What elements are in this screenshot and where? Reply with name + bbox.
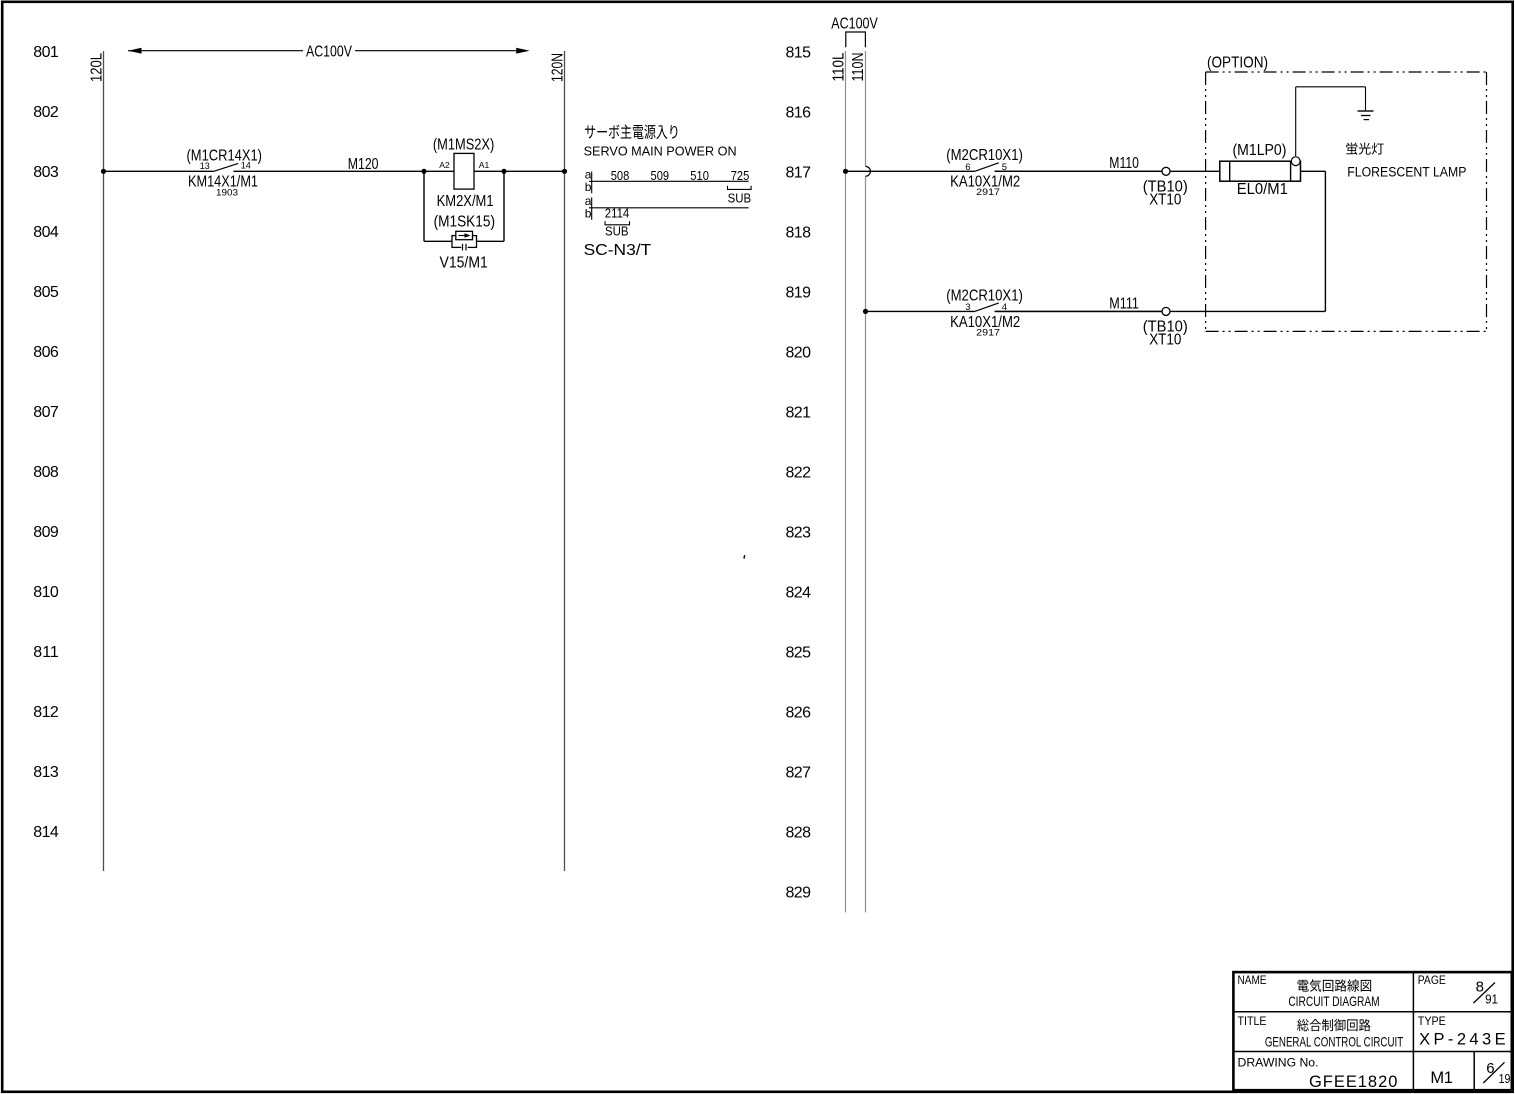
svg-text:2114: 2114 bbox=[605, 206, 630, 221]
svg-text:XT10: XT10 bbox=[1149, 191, 1182, 208]
svg-text:(M1LP0): (M1LP0) bbox=[1233, 142, 1287, 159]
svg-text:822: 822 bbox=[786, 465, 812, 482]
svg-text:SERVO MAIN POWER ON: SERVO MAIN POWER ON bbox=[584, 144, 737, 159]
svg-text:806: 806 bbox=[33, 344, 59, 361]
svg-text:1903: 1903 bbox=[216, 188, 238, 199]
svg-text:816: 816 bbox=[786, 105, 812, 122]
svg-text:829: 829 bbox=[786, 885, 812, 902]
svg-text:120L: 120L bbox=[88, 53, 105, 82]
svg-text:821: 821 bbox=[786, 405, 812, 422]
svg-text:DRAWING No.: DRAWING No. bbox=[1238, 1057, 1319, 1069]
svg-text:A2: A2 bbox=[439, 160, 450, 170]
svg-text:510: 510 bbox=[690, 168, 709, 183]
svg-text:SUB: SUB bbox=[605, 223, 629, 238]
svg-text:PAGE: PAGE bbox=[1418, 975, 1446, 987]
svg-text:8: 8 bbox=[1476, 979, 1484, 996]
svg-text:(OPTION): (OPTION) bbox=[1207, 55, 1268, 72]
svg-text:M111: M111 bbox=[1109, 295, 1139, 312]
svg-text:14: 14 bbox=[241, 161, 251, 172]
svg-text:M120: M120 bbox=[348, 156, 379, 173]
svg-text:819: 819 bbox=[786, 285, 812, 302]
svg-text:828: 828 bbox=[786, 825, 812, 842]
svg-text:5: 5 bbox=[1002, 162, 1007, 173]
svg-text:807: 807 bbox=[33, 404, 59, 421]
svg-text:TITLE: TITLE bbox=[1238, 1016, 1267, 1028]
svg-text:808: 808 bbox=[33, 464, 59, 481]
svg-text:508: 508 bbox=[611, 168, 630, 183]
svg-text:(M1SK15): (M1SK15) bbox=[434, 213, 495, 230]
svg-text:13: 13 bbox=[200, 161, 210, 172]
svg-text:AC100V: AC100V bbox=[831, 16, 878, 33]
svg-text:3: 3 bbox=[965, 302, 970, 313]
svg-text:XT10: XT10 bbox=[1149, 331, 1182, 348]
svg-text:19: 19 bbox=[1499, 1072, 1511, 1086]
svg-text:814: 814 bbox=[33, 824, 59, 841]
svg-text:SC-N3/T: SC-N3/T bbox=[584, 242, 652, 259]
svg-text:725: 725 bbox=[731, 168, 750, 183]
svg-text:M110: M110 bbox=[1109, 155, 1139, 172]
svg-text:815: 815 bbox=[786, 45, 812, 62]
svg-text:FLORESCENT LAMP: FLORESCENT LAMP bbox=[1347, 164, 1466, 179]
svg-text:110N: 110N bbox=[850, 53, 867, 82]
svg-text:CIRCUIT DIAGRAM: CIRCUIT DIAGRAM bbox=[1288, 993, 1379, 1009]
svg-text:810: 810 bbox=[33, 584, 59, 601]
svg-text:(M2CR10X1): (M2CR10X1) bbox=[946, 287, 1023, 304]
svg-text:(M2CR10X1): (M2CR10X1) bbox=[946, 147, 1023, 164]
svg-text:813: 813 bbox=[33, 764, 59, 781]
svg-text:SUB: SUB bbox=[728, 190, 752, 205]
svg-text:91: 91 bbox=[1485, 993, 1498, 1007]
svg-text:817: 817 bbox=[786, 165, 812, 182]
svg-text:EL0/M1: EL0/M1 bbox=[1237, 181, 1288, 198]
svg-text:V15/M1: V15/M1 bbox=[440, 254, 488, 271]
svg-text:b: b bbox=[585, 207, 592, 221]
svg-text:110L: 110L bbox=[830, 52, 847, 81]
svg-text:811: 811 bbox=[33, 644, 59, 661]
svg-text:GENERAL CONTROL CIRCUIT: GENERAL CONTROL CIRCUIT bbox=[1265, 1033, 1404, 1049]
svg-text:809: 809 bbox=[33, 524, 59, 541]
svg-text:509: 509 bbox=[651, 168, 670, 183]
svg-text:804: 804 bbox=[33, 224, 59, 241]
svg-text:GFEE1820: GFEE1820 bbox=[1309, 1073, 1397, 1091]
svg-text:KM2X/M1: KM2X/M1 bbox=[437, 193, 494, 210]
svg-text:M1: M1 bbox=[1430, 1069, 1453, 1087]
svg-text:6: 6 bbox=[1486, 1060, 1494, 1077]
svg-text:805: 805 bbox=[33, 284, 59, 301]
svg-text:803: 803 bbox=[33, 164, 59, 181]
svg-text:(M1MS2X): (M1MS2X) bbox=[433, 137, 494, 154]
svg-text:812: 812 bbox=[33, 704, 59, 721]
svg-text:827: 827 bbox=[786, 765, 812, 782]
svg-text:120N: 120N bbox=[549, 53, 566, 82]
svg-text:802: 802 bbox=[33, 104, 59, 121]
svg-text:818: 818 bbox=[786, 225, 812, 242]
svg-text:2917: 2917 bbox=[976, 187, 1000, 198]
svg-text:TYPE: TYPE bbox=[1418, 1016, 1446, 1028]
svg-text:825: 825 bbox=[786, 645, 812, 662]
svg-text:801: 801 bbox=[33, 44, 59, 61]
svg-text:826: 826 bbox=[786, 705, 812, 722]
svg-text:b: b bbox=[585, 180, 592, 194]
svg-text:NAME: NAME bbox=[1238, 975, 1267, 987]
svg-text:824: 824 bbox=[786, 585, 812, 602]
svg-text:823: 823 bbox=[786, 525, 812, 542]
svg-text:6: 6 bbox=[965, 162, 970, 173]
svg-text:A1: A1 bbox=[479, 160, 490, 170]
svg-text:4: 4 bbox=[1002, 302, 1007, 313]
svg-text:2917: 2917 bbox=[976, 327, 1000, 338]
svg-text:AC100V: AC100V bbox=[306, 44, 352, 61]
svg-text:820: 820 bbox=[786, 345, 812, 362]
